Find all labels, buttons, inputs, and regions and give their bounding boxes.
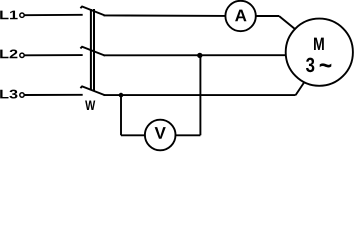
terminal L1 — [20, 13, 24, 17]
motor M circle — [286, 19, 353, 86]
switch W pole 2 blade — [80, 47, 105, 56]
motor M label — [314, 38, 324, 50]
switch W linkage bar right — [93, 9, 95, 91]
switch W label — [85, 101, 95, 110]
junction dot pole2 voltmeter branch — [197, 53, 202, 58]
node L3 label — [0, 90, 17, 99]
wire junction down to voltmeter — [120, 95, 122, 135]
voltmeter circle — [145, 120, 176, 151]
ammeter circle — [225, 1, 255, 31]
wire L2 to switch — [24, 54, 82, 56]
wire pole3 horizontal — [104, 94, 296, 96]
wire L3 to switch — [24, 94, 82, 96]
wire to voltmeter left — [121, 134, 145, 136]
wire up to pole2 junction — [199, 55, 201, 135]
wire L1 to switch — [24, 14, 82, 16]
terminal L3 — [20, 93, 24, 97]
motor 3 label — [306, 58, 314, 73]
wire bend down to motor — [279, 16, 295, 29]
wire pole1 to ammeter — [104, 14, 226, 17]
junction dot pole3 voltmeter branch — [119, 93, 124, 98]
ammeter A label — [235, 10, 246, 22]
terminal L2 — [20, 53, 24, 57]
switch W pole 1 blade — [80, 7, 105, 16]
wire pole2 to motor — [104, 54, 287, 56]
node L2 label — [0, 49, 17, 58]
wire bend up to motor — [296, 82, 305, 95]
wire voltmeter right — [176, 134, 201, 136]
motor ~ label — [320, 63, 332, 67]
voltmeter V label — [155, 127, 166, 139]
switch W linkage bar left — [90, 9, 92, 91]
switch W pole 3 blade — [80, 86, 105, 95]
node L1 label — [0, 11, 17, 20]
wire ammeter to bend — [256, 15, 279, 17]
